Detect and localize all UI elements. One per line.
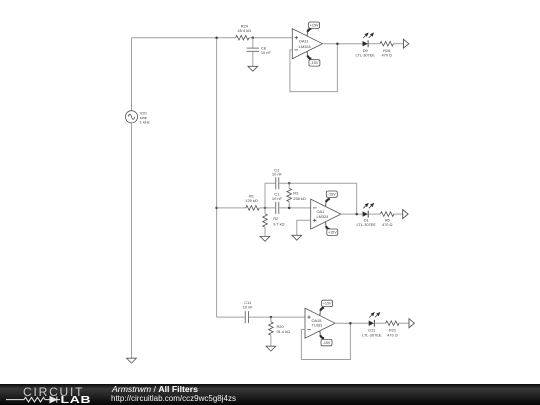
svg-text:10 nF: 10 nF [261, 50, 272, 55]
svg-text:TL081: TL081 [312, 322, 323, 327]
svg-text:10 nF: 10 nF [243, 305, 254, 310]
wire: OA11 output to D9 [322, 43, 362, 45]
wire: left bus above source [131, 38, 133, 111]
wire: OA11 feedback loop output to inverting input [290, 44, 338, 92]
wire: R26 to output terminal [393, 43, 403, 45]
junction: OA1 output / feedback rail [355, 213, 358, 216]
svg-text:470 Ω: 470 Ω [387, 332, 398, 337]
power flag +15V on OA1 [326, 222, 338, 236]
wire: bus to R1 (middle row input) [217, 207, 246, 209]
wire: C1 to OA1 inverting input [279, 207, 310, 209]
wire: D9 to R26 [368, 43, 380, 45]
LED D1 LTL-307EE [356, 204, 376, 228]
footer bar [0, 384, 540, 405]
junction: C11 / R20 node [270, 316, 273, 319]
junction: OA15 output / feedback [349, 322, 352, 325]
svg-text:129 kΩ: 129 kΩ [245, 198, 258, 203]
wire: OA15 output to D11 [335, 322, 369, 324]
svg-text:91.4 kΩ: 91.4 kΩ [277, 329, 291, 334]
terminal: middle row output flag [403, 210, 408, 219]
terminal: top row output flag [403, 39, 408, 48]
resistor R20 91.4 kOhm [269, 317, 290, 346]
ground: below R20 [266, 346, 276, 351]
svg-text:258 kΩ: 258 kΩ [293, 196, 306, 201]
capacitor C8 10 nF [247, 38, 272, 67]
wire: OA1 output to D1 [341, 213, 363, 215]
LED D11 LTL-307EE [362, 313, 382, 338]
svg-text:-15V: -15V [311, 61, 319, 65]
svg-text:470 Ω: 470 Ω [381, 53, 392, 58]
svg-text:LTL-307EE: LTL-307EE [356, 222, 376, 227]
ground: at OA1 noninverting input [292, 235, 302, 240]
junction: R1 / R2 / C1 node [264, 207, 267, 210]
capacitor C2 10 nF [272, 167, 283, 189]
wire: R21 to output terminal [399, 322, 409, 324]
wire: feedback rail right of C2 down to output [279, 183, 356, 214]
junction: R24 / C8 node [252, 36, 255, 39]
wire: C11 to OA15 noninverting input [249, 316, 305, 318]
svg-text:-15V: -15V [328, 193, 336, 197]
wire: R6 to output terminal [394, 213, 403, 215]
power flag +15V on OA15 [320, 300, 333, 315]
wire: top rail from left bus to R24 [132, 37, 236, 39]
junction: middle row tap on bus [215, 207, 218, 210]
power flag -15V on OA15 [320, 331, 332, 346]
resistor R21 470 Ohm [386, 321, 399, 337]
footer title text [112, 384, 198, 394]
footer url text [111, 394, 236, 403]
svg-text:LM324: LM324 [299, 44, 312, 49]
junction: rail / R3 [288, 182, 291, 185]
svg-text:LTL-307EE: LTL-307EE [362, 332, 382, 337]
resistor R2 9.7 kOhm [263, 208, 285, 237]
ground: bottom of left bus [127, 358, 137, 363]
resistor R3 258 kOhm [287, 183, 306, 208]
power flag +15V on OA11 [307, 22, 320, 36]
capacitor C11 10 nF [243, 300, 254, 323]
resistor R26 470 Ohm [380, 41, 393, 57]
svg-text:1 kHz: 1 kHz [140, 119, 150, 124]
voltage source V20 sine 1 kHz [125, 110, 149, 124]
svg-text:+15V: +15V [328, 231, 337, 235]
ground: below C8 [248, 66, 258, 71]
CircuitLab logo [0, 384, 110, 405]
svg-text:-15V: -15V [323, 341, 331, 345]
wire: feedback rail with C2 (left leg and top) [265, 183, 275, 208]
wire: bus corner to C11 (bottom row input) [217, 316, 245, 318]
svg-text:9.7 kΩ: 9.7 kΩ [273, 221, 284, 226]
wire: D11 to R21 [374, 322, 385, 324]
op-amp OA11 LM324 [292, 29, 322, 59]
svg-text:LM324: LM324 [317, 214, 330, 219]
junction: top rail / bus [215, 36, 218, 39]
power flag -15V on OA11 [307, 51, 320, 66]
wire: vertical distribution bus [216, 38, 218, 317]
junction: OA11 output / feedback [336, 42, 339, 45]
svg-text:LAB: LAB [61, 394, 92, 405]
resistor R6 470 Ohm [380, 212, 393, 227]
junction: C1 / R3 node [288, 207, 291, 210]
svg-text:+15V: +15V [310, 24, 319, 28]
wire: left bus below source [131, 123, 133, 358]
wire: OA1 noninverting input to ground [297, 220, 311, 235]
wire: R24 to op-amp OA11 noninverting input [249, 37, 292, 39]
terminal: bottom row output flag [409, 319, 414, 328]
svg-text:45.4 kΩ: 45.4 kΩ [238, 28, 252, 33]
power flag -15V on OA1 [326, 191, 338, 207]
wire: OA15 feedback loop output to inverting input [301, 323, 350, 359]
svg-text:10 nF: 10 nF [272, 196, 283, 201]
resistor R24 45.4 kOhm [236, 23, 252, 40]
capacitor C1 10 nF [272, 192, 283, 214]
ground: below R2 [260, 236, 270, 241]
svg-text:+15V: +15V [323, 302, 332, 306]
LED D9 LTL-307EE [355, 33, 375, 58]
wire: D1 to R6 [368, 213, 380, 215]
wire: R1 to C1 node [259, 207, 275, 209]
svg-text:470 Ω: 470 Ω [382, 222, 393, 227]
svg-text:LTL-307EE: LTL-307EE [355, 53, 375, 58]
op-amp OA1 LM324 [311, 199, 341, 229]
svg-text:10 nF: 10 nF [272, 172, 283, 177]
op-amp OA15 TL081 [305, 308, 335, 338]
resistor R1 129 kOhm [245, 194, 259, 211]
